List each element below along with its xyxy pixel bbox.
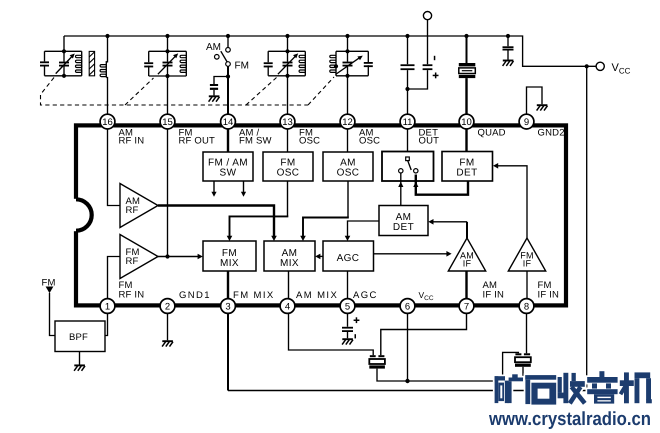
svg-text:1: 1 xyxy=(105,302,110,313)
svg-text:OSC: OSC xyxy=(359,136,380,147)
svg-text:AM: AM xyxy=(206,42,221,53)
svg-text:FM: FM xyxy=(235,61,249,72)
svg-text:6: 6 xyxy=(405,302,410,313)
svg-text:RF OUT: RF OUT xyxy=(179,136,216,147)
svg-text:7: 7 xyxy=(464,302,469,313)
svg-text:SW: SW xyxy=(220,167,237,178)
svg-text:OUT: OUT xyxy=(419,136,440,147)
svg-text:OSC: OSC xyxy=(299,136,320,147)
svg-text:10: 10 xyxy=(461,117,472,128)
svg-text:MIX: MIX xyxy=(280,258,299,269)
svg-text:RF IN: RF IN xyxy=(119,289,145,300)
svg-text:14: 14 xyxy=(223,117,234,128)
svg-text:IF IN: IF IN xyxy=(538,289,560,300)
svg-text:GND2: GND2 xyxy=(538,127,565,138)
svg-text:4: 4 xyxy=(285,302,290,313)
svg-text:3: 3 xyxy=(225,302,230,313)
svg-text:15: 15 xyxy=(162,117,173,128)
svg-text:AM MIX: AM MIX xyxy=(296,290,338,301)
svg-text:12: 12 xyxy=(342,117,353,128)
svg-text:BPF: BPF xyxy=(69,332,88,343)
svg-text:MIX: MIX xyxy=(220,258,239,269)
svg-text:2: 2 xyxy=(165,302,170,313)
svg-text:9: 9 xyxy=(524,117,529,128)
svg-text:DET: DET xyxy=(393,222,414,233)
svg-text:RF: RF xyxy=(126,256,139,267)
svg-text:www.crystalradio.cn: www.crystalradio.cn xyxy=(488,409,651,430)
svg-text:FM SW: FM SW xyxy=(239,136,272,147)
svg-text:8: 8 xyxy=(524,302,529,313)
svg-text:OSC: OSC xyxy=(337,167,360,178)
svg-text:11: 11 xyxy=(403,117,413,128)
svg-text:FM MIX: FM MIX xyxy=(233,290,275,301)
svg-text:QUAD: QUAD xyxy=(478,127,506,138)
svg-text:DET: DET xyxy=(456,167,477,178)
svg-text:13: 13 xyxy=(282,117,293,128)
svg-text:5: 5 xyxy=(345,302,350,313)
svg-text:AGC: AGC xyxy=(353,290,378,301)
svg-text:RF IN: RF IN xyxy=(119,136,145,147)
svg-text:IF IN: IF IN xyxy=(483,289,505,300)
svg-text:RF: RF xyxy=(126,205,139,216)
svg-text:GND1: GND1 xyxy=(179,290,211,301)
svg-text:16: 16 xyxy=(102,117,113,128)
svg-text:AGC: AGC xyxy=(337,253,360,264)
svg-text:OSC: OSC xyxy=(277,167,300,178)
svg-text:IF: IF xyxy=(523,259,532,269)
svg-text:IF: IF xyxy=(463,259,472,269)
